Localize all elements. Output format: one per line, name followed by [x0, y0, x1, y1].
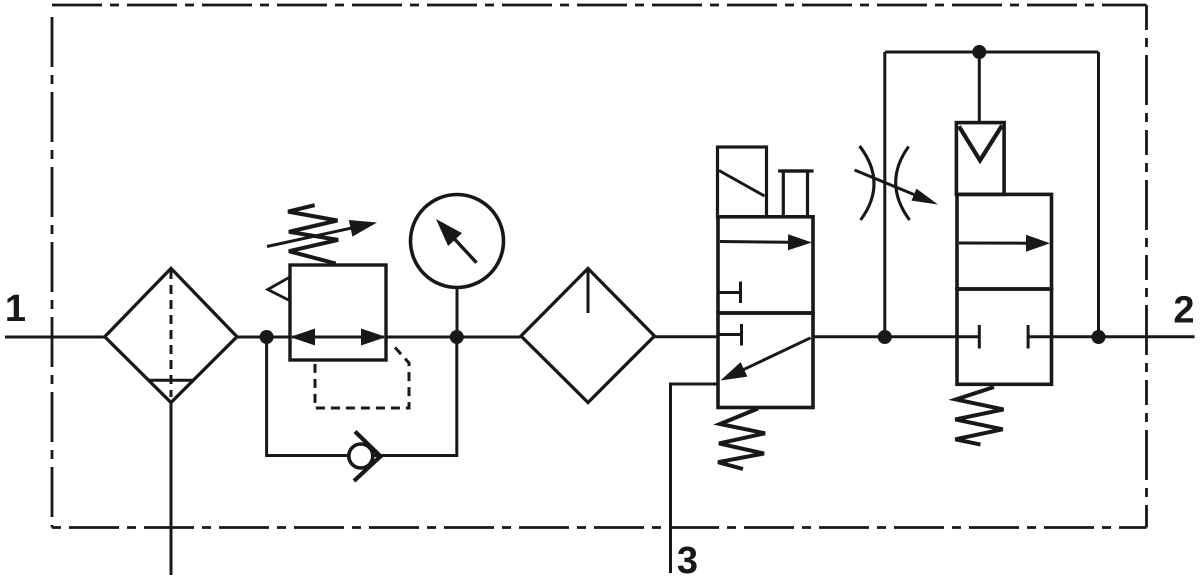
- filter F2 (diamond body): [521, 269, 655, 403]
- valve V3 upper position box: [957, 194, 1052, 289]
- valve V2 detent bracket: [783, 171, 807, 217]
- wire: bypass loop: [267, 340, 349, 456]
- wire: throttle branch (vertical): [883, 52, 886, 337]
- wire: regulator to filter F2: [386, 336, 521, 339]
- svg-text:2: 2: [1173, 290, 1194, 332]
- regulator R1 flow line: [292, 336, 384, 339]
- valve V3 return spring: [955, 387, 1003, 445]
- valve V2 exhaust arrow (diagonal): [738, 338, 811, 372]
- wire: port 1 inlet: [5, 336, 105, 339]
- node D (pilot tap dot): [972, 45, 986, 59]
- filter F1 separator chord: [149, 379, 194, 382]
- wire: right bypass drop: [1097, 52, 1100, 337]
- node E (junction dot): [1092, 330, 1106, 344]
- wire: pilot drop line: [978, 52, 981, 123]
- valve V3 right blocked port: [1028, 335, 1051, 338]
- check valve V1 seat: [354, 432, 381, 482]
- regulator R1 right arrowhead: [361, 329, 386, 346]
- regulator R1 relief triangle: [268, 277, 290, 300]
- valve V2 manual actuator box: [718, 147, 767, 217]
- filter F2 element line: [587, 269, 590, 313]
- filter F1 element (dashed centre line): [170, 270, 173, 397]
- valve V2 upper position box: [718, 217, 813, 313]
- node C (junction dot): [878, 330, 892, 344]
- pressure gauge G1 needle: [450, 234, 477, 263]
- wire: valve V2 to soft-start valve: [813, 335, 957, 338]
- enclosure border (dash-dot frame): [52, 4, 1147, 7]
- wire: port 2 outlet: [1052, 335, 1195, 338]
- wire: gauge stem: [456, 288, 459, 338]
- node B (junction dot): [450, 330, 464, 344]
- throttle valve FC1 (right arc): [896, 147, 910, 221]
- regulator R1 adjustment arrow: [267, 226, 360, 246]
- wire: top bypass line: [885, 51, 1099, 54]
- throttle valve FC1 adjustment arrow: [855, 170, 921, 197]
- valve V2 return spring: [718, 409, 765, 470]
- valve V2 manual actuator diagonal: [719, 171, 765, 197]
- wire: exhaust to port 3: [671, 384, 720, 573]
- valve V3 flow arrow: [959, 242, 1028, 245]
- valve V2 lower blocked port: [719, 333, 742, 336]
- valve V2 lower position box: [718, 313, 813, 408]
- regulator R1 adjustment spring: [288, 205, 338, 263]
- throttle valve FC1 (left arc): [860, 146, 874, 220]
- regulator R1 pilot line (dashed): [315, 348, 409, 409]
- pilot check head of valve V3: [956, 123, 1004, 195]
- node A (junction dot): [260, 330, 274, 344]
- pressure gauge G1 (dial): [411, 195, 504, 288]
- valve V3 lower position box: [957, 289, 1052, 384]
- valve V3 left blocked port: [957, 335, 979, 338]
- wire: filter F2 to valve V2: [655, 335, 719, 338]
- wire: condensate drain line: [170, 403, 173, 576]
- valve V2 upper blocked port: [719, 291, 741, 294]
- regulator R1 body: [290, 265, 386, 360]
- wire: filter F1 to regulator: [237, 336, 290, 339]
- svg-text:1: 1: [5, 288, 26, 330]
- filter with water separator F1 (diamond body): [105, 268, 237, 402]
- regulator R1 left arrowhead: [290, 329, 315, 346]
- svg-text:3: 3: [677, 540, 698, 582]
- check valve V1 (ball): [349, 444, 373, 468]
- valve V2 upper flow arrow: [720, 240, 790, 244]
